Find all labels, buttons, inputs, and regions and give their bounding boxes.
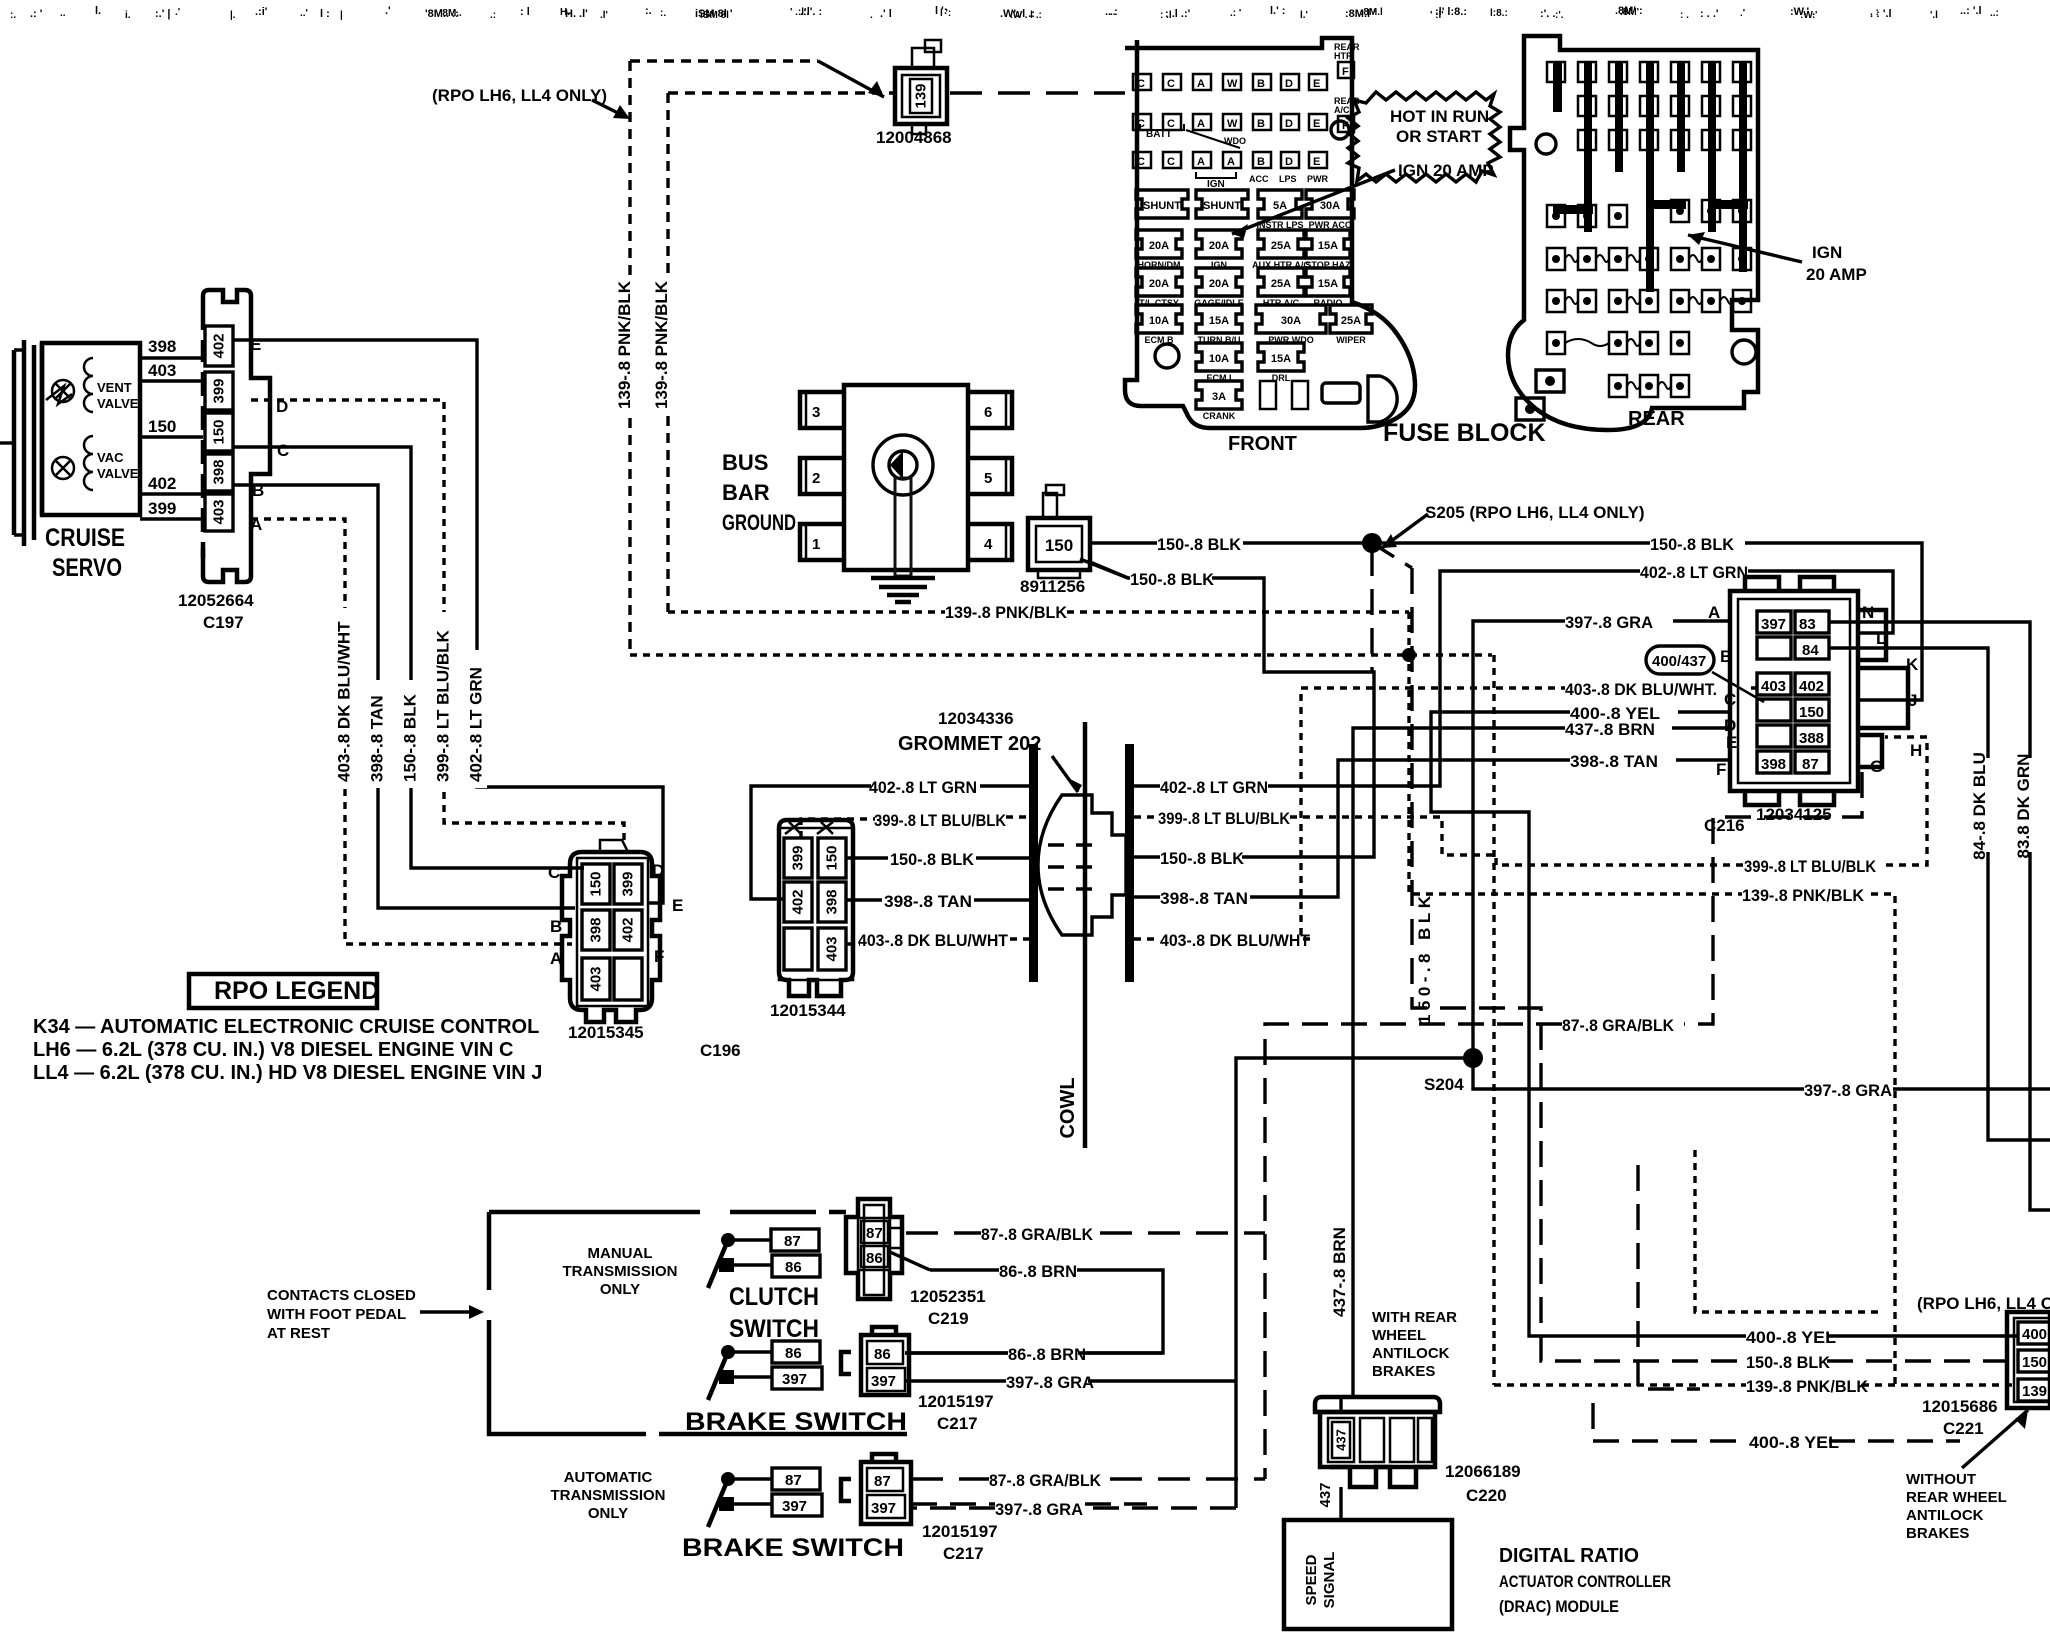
svg-text:WIPER: WIPER bbox=[1336, 335, 1366, 345]
svg-text:388: 388 bbox=[1799, 730, 1824, 747]
svg-text:397: 397 bbox=[782, 1498, 807, 1515]
svg-text:12052664: 12052664 bbox=[178, 591, 254, 610]
svg-text:150-.8 BLK: 150-.8 BLK bbox=[1130, 570, 1215, 589]
svg-text:.': .' bbox=[1740, 8, 1745, 19]
svg-text:12034336: 12034336 bbox=[938, 709, 1014, 728]
svg-text:G: G bbox=[1870, 757, 1883, 776]
svg-text:.': .' bbox=[175, 7, 180, 18]
svg-text::'. .: :'. . bbox=[1540, 8, 1555, 20]
svg-text:LH6 — 6.2L (378 CU. IN.) V8 DI: LH6 — 6.2L (378 CU. IN.) V8 DIESEL ENGIN… bbox=[33, 1039, 514, 1061]
svg-text:A: A bbox=[1197, 118, 1205, 130]
svg-text::8M.l ': :8M.l ' bbox=[1345, 8, 1376, 20]
svg-text:: .l .:': : .l .:' bbox=[1165, 8, 1191, 20]
svg-text:VAC: VAC bbox=[97, 450, 124, 465]
svg-text:..': ..' bbox=[300, 8, 308, 19]
svg-text:ACC: ACC bbox=[1249, 174, 1269, 184]
svg-text:REAR WHEEL: REAR WHEEL bbox=[1906, 1489, 2007, 1506]
svg-text:398: 398 bbox=[1761, 756, 1786, 773]
svg-text:CONTACTS CLOSED: CONTACTS CLOSED bbox=[267, 1287, 416, 1304]
svg-text:400-.8 YEL: 400-.8 YEL bbox=[1746, 1328, 1836, 1347]
svg-text:3: 3 bbox=[812, 404, 820, 421]
svg-text::.: :. bbox=[645, 5, 652, 17]
svg-text:ONLY: ONLY bbox=[600, 1281, 640, 1298]
svg-text:20A: 20A bbox=[1209, 278, 1229, 290]
svg-text:E: E bbox=[250, 335, 261, 354]
svg-text:MANUAL: MANUAL bbox=[588, 1245, 653, 1262]
svg-text:ECM B: ECM B bbox=[1145, 335, 1175, 345]
svg-text:|: | bbox=[340, 10, 343, 21]
svg-text:l:8.:: l:8.: bbox=[1490, 8, 1508, 19]
svg-text:139: 139 bbox=[913, 83, 930, 108]
svg-text:.: ': .: ' bbox=[30, 8, 43, 20]
svg-text:87: 87 bbox=[874, 1473, 891, 1490]
svg-text:B: B bbox=[550, 917, 562, 936]
svg-text:403: 403 bbox=[588, 966, 605, 991]
svg-text:CRUISE: CRUISE bbox=[45, 524, 125, 552]
svg-text:l.' :: l.' : bbox=[1270, 5, 1285, 17]
svg-text:139: 139 bbox=[2022, 1383, 2047, 1400]
svg-text:398: 398 bbox=[588, 917, 605, 942]
svg-text:2: 2 bbox=[812, 470, 820, 487]
svg-text:402: 402 bbox=[620, 917, 637, 942]
svg-text:S204: S204 bbox=[1424, 1075, 1464, 1094]
svg-text:H: H bbox=[1910, 741, 1922, 760]
svg-text:W: W bbox=[1227, 118, 1238, 130]
svg-text:15A: 15A bbox=[1318, 278, 1338, 290]
svg-text:COWL: COWL bbox=[1057, 1077, 1079, 1138]
svg-text:SHUNT: SHUNT bbox=[1203, 200, 1241, 212]
svg-text:10A: 10A bbox=[1149, 315, 1169, 327]
svg-text:C: C bbox=[1167, 78, 1175, 90]
svg-text:399-.8 LT BLU/BLK: 399-.8 LT BLU/BLK bbox=[1744, 857, 1877, 876]
svg-text:SPEED: SPEED bbox=[1303, 1554, 1320, 1605]
svg-text:400-.8 YEL: 400-.8 YEL bbox=[1749, 1433, 1839, 1452]
svg-text:D: D bbox=[1285, 156, 1293, 168]
svg-text:150: 150 bbox=[211, 419, 228, 444]
svg-text:(RPO LH6, LL4 ONLY): (RPO LH6, LL4 ONLY) bbox=[432, 86, 607, 105]
svg-text:12015197: 12015197 bbox=[922, 1522, 998, 1541]
svg-text:400/437: 400/437 bbox=[1652, 653, 1706, 670]
svg-text:397-.8 GRA: 397-.8 GRA bbox=[1006, 1373, 1094, 1392]
svg-text:C196: C196 bbox=[700, 1041, 741, 1060]
svg-text:139-.8 PNK/BLK: 139-.8 PNK/BLK bbox=[1746, 1377, 1869, 1396]
svg-text:.. :: .. : bbox=[1105, 6, 1118, 18]
svg-text:C: C bbox=[1167, 156, 1175, 168]
svg-text:VALVE: VALVE bbox=[97, 466, 139, 481]
svg-text:87: 87 bbox=[785, 1472, 802, 1489]
svg-text:LL4 — 6.2L (378 CU. IN.) HD V8: LL4 — 6.2L (378 CU. IN.) HD V8 DIESEL EN… bbox=[33, 1062, 542, 1084]
svg-text:'8M.. .:: '8M.. .: bbox=[425, 8, 459, 20]
svg-text:10A: 10A bbox=[1209, 353, 1229, 365]
svg-text:.:l'. :: .:l'. : bbox=[800, 6, 822, 18]
svg-text:l :: l : bbox=[320, 8, 330, 20]
svg-text:AT REST: AT REST bbox=[267, 1325, 330, 1342]
svg-text:.' l: .' l bbox=[880, 8, 892, 20]
svg-text:VALVE: VALVE bbox=[97, 396, 139, 411]
svg-text:WITH REAR: WITH REAR bbox=[1372, 1309, 1457, 1326]
svg-text:L: L bbox=[1876, 629, 1886, 648]
svg-text:87-.8 GRA/BLK: 87-.8 GRA/BLK bbox=[981, 1225, 1094, 1244]
svg-text:A: A bbox=[550, 949, 562, 968]
svg-text:LPS: LPS bbox=[1279, 174, 1297, 184]
svg-text:25A: 25A bbox=[1341, 315, 1361, 327]
svg-text:A: A bbox=[1227, 156, 1235, 168]
svg-text:H. .l': H. .l' bbox=[565, 8, 588, 20]
svg-text:150: 150 bbox=[1799, 704, 1824, 721]
svg-text:FUSE BLOCK: FUSE BLOCK bbox=[1383, 419, 1546, 447]
svg-text:139-.8 PNK/BLK: 139-.8 PNK/BLK bbox=[945, 603, 1068, 622]
svg-text::.: :. bbox=[660, 8, 666, 19]
svg-text:BUS: BUS bbox=[722, 450, 768, 475]
svg-text:S205 (RPO LH6, LL4 ONLY): S205 (RPO LH6, LL4 ONLY) bbox=[1425, 503, 1644, 522]
svg-text:1: 1 bbox=[812, 536, 820, 553]
svg-text:C: C bbox=[1724, 690, 1736, 709]
svg-text:BATT: BATT bbox=[1146, 129, 1172, 140]
svg-text:HOT IN RUN: HOT IN RUN bbox=[1390, 107, 1489, 126]
svg-text:C: C bbox=[277, 441, 289, 460]
svg-text:400: 400 bbox=[2022, 1326, 2047, 1343]
svg-text:A: A bbox=[1197, 156, 1205, 168]
svg-text:5: 5 bbox=[984, 470, 992, 487]
svg-text:87-.8 GRA/BLK: 87-.8 GRA/BLK bbox=[1562, 1016, 1675, 1035]
svg-text:B: B bbox=[1720, 647, 1732, 666]
svg-text:WDO: WDO bbox=[1224, 136, 1246, 146]
svg-text:30A: 30A bbox=[1281, 315, 1301, 327]
svg-text:VENT: VENT bbox=[97, 380, 132, 395]
svg-text:BRAKES: BRAKES bbox=[1372, 1363, 1435, 1380]
svg-text:399-.8 LT BLU/BLK: 399-.8 LT BLU/BLK bbox=[434, 630, 453, 782]
svg-text:437: 437 bbox=[1334, 1429, 1349, 1451]
svg-text:397: 397 bbox=[782, 1371, 807, 1388]
svg-text:402: 402 bbox=[148, 474, 176, 493]
svg-text:F: F bbox=[654, 947, 664, 966]
svg-text:15A: 15A bbox=[1318, 240, 1338, 252]
svg-text:CLUTCH: CLUTCH bbox=[729, 1283, 819, 1311]
svg-text:. : '.l: . : '.l bbox=[1870, 8, 1892, 20]
svg-text:: . .': : . .' bbox=[1700, 8, 1719, 20]
svg-text:403-.8 DK BLU/WHT: 403-.8 DK BLU/WHT bbox=[335, 621, 354, 782]
svg-text:RPO LEGEND: RPO LEGEND bbox=[214, 977, 379, 1005]
svg-text:BRAKE SWITCH: BRAKE SWITCH bbox=[685, 1408, 907, 1436]
svg-text:398-.8 TAN: 398-.8 TAN bbox=[1570, 752, 1658, 771]
svg-text:E: E bbox=[1313, 118, 1320, 130]
svg-text:397-.8 GRA: 397-.8 GRA bbox=[1804, 1081, 1892, 1100]
svg-text:20A: 20A bbox=[1209, 240, 1229, 252]
svg-text:E: E bbox=[672, 896, 683, 915]
svg-text:REAR: REAR bbox=[1628, 408, 1685, 430]
svg-text:C216: C216 bbox=[1704, 816, 1745, 835]
svg-text:20A: 20A bbox=[1149, 240, 1169, 252]
svg-text:139-.8 PNK/BLK: 139-.8 PNK/BLK bbox=[615, 280, 634, 409]
svg-text:398-.8 TAN: 398-.8 TAN bbox=[368, 695, 387, 782]
svg-text:ANTILOCK: ANTILOCK bbox=[1372, 1345, 1450, 1362]
svg-text:i.: i. bbox=[125, 10, 131, 21]
svg-text:12015345: 12015345 bbox=[568, 1023, 644, 1042]
svg-text:397-.8 GRA: 397-.8 GRA bbox=[1565, 613, 1653, 632]
svg-text:SIGNAL: SIGNAL bbox=[1321, 1552, 1338, 1609]
svg-text:.:: .: bbox=[490, 10, 496, 21]
svg-text:150: 150 bbox=[148, 417, 176, 436]
svg-text:150: 150 bbox=[1045, 536, 1073, 555]
svg-text:150-.8 BLK: 150-.8 BLK bbox=[401, 693, 420, 782]
svg-text:|.: |. bbox=[230, 10, 236, 21]
svg-text:D: D bbox=[652, 861, 664, 880]
svg-text:15A: 15A bbox=[1271, 353, 1291, 365]
svg-text:C219: C219 bbox=[928, 1309, 969, 1328]
svg-text:W: W bbox=[1227, 78, 1238, 90]
svg-text:: .: : . bbox=[1680, 10, 1689, 21]
svg-text:K: K bbox=[1906, 655, 1919, 674]
svg-text:150-.8 BLK: 150-.8 BLK bbox=[1157, 535, 1242, 554]
svg-text:.: . bbox=[870, 10, 873, 21]
svg-text:84-.8 DK BLU: 84-.8 DK BLU bbox=[1970, 752, 1989, 860]
svg-text:399-.8 LT BLU/BLK: 399-.8 LT BLU/BLK bbox=[1158, 809, 1291, 828]
svg-text:402: 402 bbox=[211, 333, 228, 358]
svg-text:C217: C217 bbox=[943, 1544, 984, 1563]
svg-text:150: 150 bbox=[2022, 1354, 2047, 1371]
svg-text:: l: : l bbox=[520, 6, 530, 18]
svg-text:SWITCH: SWITCH bbox=[729, 1315, 819, 1343]
svg-text:F: F bbox=[1716, 760, 1726, 779]
svg-text:l.: l. bbox=[95, 5, 101, 17]
svg-text:ANTILOCK: ANTILOCK bbox=[1906, 1507, 1984, 1524]
svg-text:..: '.l: ..: '.l bbox=[1960, 5, 1982, 17]
svg-text:397-.8 GRA: 397-.8 GRA bbox=[995, 1500, 1083, 1519]
svg-text:IGN 20 AMP: IGN 20 AMP bbox=[1398, 161, 1494, 180]
svg-text::.: :. bbox=[10, 10, 16, 21]
svg-text::.' |: :.' | bbox=[155, 8, 170, 20]
svg-text:.: ': .: ' bbox=[1230, 8, 1241, 19]
svg-text:BRAKES: BRAKES bbox=[1906, 1525, 1969, 1542]
svg-text:6: 6 bbox=[984, 404, 992, 421]
svg-text:BRAKE SWITCH: BRAKE SWITCH bbox=[682, 1534, 904, 1562]
svg-text:A: A bbox=[1197, 78, 1205, 90]
svg-text:398: 398 bbox=[211, 459, 228, 484]
svg-text:402-.8 LT GRN: 402-.8 LT GRN bbox=[1160, 778, 1268, 797]
svg-text:C: C bbox=[1137, 156, 1145, 168]
svg-text:150-.8 BLK: 150-.8 BLK bbox=[1746, 1353, 1831, 1372]
svg-text:402-.8 LT GRN: 402-.8 LT GRN bbox=[467, 667, 486, 782]
svg-text:397: 397 bbox=[871, 1500, 896, 1517]
svg-text:GROUND: GROUND bbox=[722, 510, 796, 535]
svg-text:403-.8 DK BLU/WHT: 403-.8 DK BLU/WHT bbox=[858, 931, 1009, 950]
svg-text:437-.8 BRN: 437-.8 BRN bbox=[1565, 720, 1655, 739]
svg-text:SHUNT: SHUNT bbox=[1143, 200, 1181, 212]
svg-text:ACTUATOR CONTROLLER: ACTUATOR CONTROLLER bbox=[1499, 1572, 1671, 1591]
svg-text:403: 403 bbox=[148, 361, 176, 380]
svg-text:402-.8 LT GRN: 402-.8 LT GRN bbox=[869, 778, 977, 797]
svg-text:403: 403 bbox=[211, 499, 228, 524]
svg-text:437: 437 bbox=[1317, 1482, 1334, 1507]
svg-text:C221: C221 bbox=[1943, 1419, 1984, 1438]
svg-text:.8M' :: .8M' : bbox=[1615, 5, 1643, 17]
svg-text:C: C bbox=[1137, 78, 1145, 90]
svg-text:.:i': .:i' bbox=[255, 6, 268, 18]
svg-text:139-.8 PNK/BLK: 139-.8 PNK/BLK bbox=[652, 280, 671, 409]
svg-text:30A: 30A bbox=[1320, 200, 1340, 212]
svg-text:DIGITAL RATIO: DIGITAL RATIO bbox=[1499, 1545, 1639, 1567]
svg-text:SERVO: SERVO bbox=[52, 554, 122, 582]
svg-text:87: 87 bbox=[784, 1233, 801, 1250]
svg-text:15A: 15A bbox=[1209, 315, 1229, 327]
svg-text:3A: 3A bbox=[1212, 391, 1226, 403]
svg-text:402: 402 bbox=[1799, 678, 1824, 695]
svg-text:iSM 8l ': iSM 8l ' bbox=[695, 8, 733, 20]
svg-text:150-.8 BLK: 150-.8 BLK bbox=[1160, 849, 1245, 868]
svg-text:OR START: OR START bbox=[1396, 127, 1482, 146]
svg-text:A/C: A/C bbox=[1334, 105, 1350, 115]
svg-text:..: .. bbox=[60, 8, 66, 19]
svg-text:E: E bbox=[1726, 733, 1737, 752]
svg-text:399: 399 bbox=[790, 845, 807, 870]
svg-text:ONLY: ONLY bbox=[588, 1505, 628, 1522]
svg-text:403-.8 DK BLU/WHT.: 403-.8 DK BLU/WHT. bbox=[1565, 680, 1717, 699]
svg-text:.W'. l .:: .W'. l .: bbox=[1000, 8, 1035, 20]
svg-text:AUTOMATIC: AUTOMATIC bbox=[564, 1469, 653, 1486]
svg-text:20 AMP: 20 AMP bbox=[1806, 265, 1867, 284]
svg-text:402-.8 LT GRN: 402-.8 LT GRN bbox=[1640, 563, 1748, 582]
svg-text:20A: 20A bbox=[1149, 278, 1169, 290]
svg-text:12052351: 12052351 bbox=[910, 1287, 986, 1306]
svg-text:C: C bbox=[548, 863, 560, 882]
svg-text:WHEEL: WHEEL bbox=[1372, 1327, 1426, 1344]
svg-text:l ':: l ': bbox=[935, 5, 947, 17]
svg-text:402: 402 bbox=[790, 889, 807, 914]
svg-text:..:: ..: bbox=[1990, 8, 1999, 19]
svg-text:C220: C220 bbox=[1466, 1486, 1507, 1505]
svg-text:4: 4 bbox=[984, 536, 993, 553]
svg-text:12015197: 12015197 bbox=[918, 1392, 994, 1411]
svg-text:IGN: IGN bbox=[1812, 243, 1842, 262]
svg-text:150-.8 BLK: 150-.8 BLK bbox=[890, 850, 975, 869]
svg-text:.l': .l' bbox=[600, 10, 608, 21]
svg-text:12015344: 12015344 bbox=[770, 1001, 846, 1020]
svg-text:398: 398 bbox=[148, 337, 176, 356]
svg-text:150-.8 BLK: 150-.8 BLK bbox=[1415, 895, 1434, 1024]
svg-text:398-.8 TAN: 398-.8 TAN bbox=[1160, 889, 1248, 908]
svg-text:86: 86 bbox=[785, 1345, 802, 1362]
svg-text:N: N bbox=[1862, 603, 1874, 622]
svg-text:87: 87 bbox=[866, 1225, 883, 1242]
svg-text:WITH FOOT PEDAL: WITH FOOT PEDAL bbox=[267, 1306, 406, 1323]
svg-text:TRANSMISSION: TRANSMISSION bbox=[550, 1487, 665, 1504]
svg-text:J: J bbox=[1908, 691, 1917, 710]
svg-text:25A: 25A bbox=[1271, 278, 1291, 290]
svg-text:150-.8 BLK: 150-.8 BLK bbox=[1650, 535, 1735, 554]
svg-text:139-.8 PNK/BLK: 139-.8 PNK/BLK bbox=[1742, 886, 1865, 905]
svg-text:BAR: BAR bbox=[722, 480, 770, 505]
svg-text:WITHOUT: WITHOUT bbox=[1906, 1471, 1976, 1488]
svg-text:F: F bbox=[1342, 120, 1349, 132]
svg-text:(DRAC) MODULE: (DRAC) MODULE bbox=[1499, 1597, 1619, 1616]
svg-text:437-.8 BRN: 437-.8 BRN bbox=[1330, 1227, 1349, 1317]
svg-text:12034125: 12034125 bbox=[1756, 805, 1832, 824]
svg-text::l' l:8.:: :l' l:8.: bbox=[1435, 6, 1467, 18]
svg-text:86: 86 bbox=[874, 1346, 891, 1363]
svg-text:'.l: '.l bbox=[1930, 10, 1938, 21]
svg-text:D: D bbox=[1285, 78, 1293, 90]
svg-text:GROMMET 202: GROMMET 202 bbox=[898, 733, 1041, 755]
svg-text:86-.8 BRN: 86-.8 BRN bbox=[1008, 1345, 1086, 1364]
svg-text:86: 86 bbox=[785, 1259, 802, 1276]
svg-text:C217: C217 bbox=[937, 1414, 978, 1433]
svg-text:.': .' bbox=[385, 5, 391, 17]
svg-text:25A: 25A bbox=[1271, 240, 1291, 252]
svg-text:PWR: PWR bbox=[1307, 174, 1328, 184]
svg-text:E: E bbox=[1313, 156, 1320, 168]
svg-text:K34 — AUTOMATIC ELECTRONIC CRU: K34 — AUTOMATIC ELECTRONIC CRUISE CONTRO… bbox=[33, 1016, 539, 1038]
svg-text:150: 150 bbox=[824, 845, 841, 870]
svg-text:12066189: 12066189 bbox=[1445, 1462, 1521, 1481]
svg-text:399: 399 bbox=[148, 499, 176, 518]
svg-text:F: F bbox=[1342, 66, 1349, 78]
svg-text:86: 86 bbox=[866, 1250, 883, 1267]
svg-text:398-.8 TAN: 398-.8 TAN bbox=[884, 892, 972, 911]
svg-text:B: B bbox=[1257, 118, 1265, 130]
svg-text:TRANSMISSION: TRANSMISSION bbox=[562, 1263, 677, 1280]
svg-text:12004868: 12004868 bbox=[876, 128, 952, 147]
svg-text:83: 83 bbox=[1799, 616, 1816, 633]
svg-text:87-.8 GRA/BLK: 87-.8 GRA/BLK bbox=[989, 1471, 1102, 1490]
svg-text:399-.8 LT BLU/BLK: 399-.8 LT BLU/BLK bbox=[874, 811, 1007, 830]
svg-text:FRONT: FRONT bbox=[1228, 433, 1297, 455]
svg-text:D: D bbox=[1285, 118, 1293, 130]
svg-text:403: 403 bbox=[1761, 678, 1786, 695]
svg-text:399: 399 bbox=[211, 378, 228, 403]
svg-text:399: 399 bbox=[620, 871, 637, 896]
svg-text:150: 150 bbox=[588, 871, 605, 896]
svg-text:87: 87 bbox=[1802, 756, 1819, 773]
svg-text:398: 398 bbox=[824, 889, 841, 914]
svg-text:86-.8 BRN: 86-.8 BRN bbox=[999, 1262, 1077, 1281]
svg-text:l.': l.' bbox=[1300, 10, 1308, 21]
svg-text:A: A bbox=[1708, 603, 1720, 622]
svg-text::W.' .: :W.' . bbox=[1790, 6, 1815, 18]
svg-text:C197: C197 bbox=[203, 613, 244, 632]
svg-text::'.: :'. bbox=[1555, 10, 1564, 21]
svg-text:8911256: 8911256 bbox=[1020, 577, 1085, 596]
svg-text:83.8 DK GRN: 83.8 DK GRN bbox=[2014, 754, 2033, 859]
svg-text:B: B bbox=[1257, 78, 1265, 90]
svg-text:HTR: HTR bbox=[1334, 51, 1353, 61]
svg-text:403: 403 bbox=[824, 936, 841, 961]
svg-text:CRANK: CRANK bbox=[1203, 411, 1236, 421]
svg-text:E: E bbox=[1313, 78, 1320, 90]
svg-text:403-.8 DK BLU/WHT: 403-.8 DK BLU/WHT bbox=[1160, 931, 1311, 950]
svg-text:397: 397 bbox=[871, 1373, 896, 1390]
svg-text:5A: 5A bbox=[1273, 200, 1287, 212]
svg-text:84: 84 bbox=[1802, 642, 1819, 659]
svg-text:12015686: 12015686 bbox=[1922, 1397, 1998, 1416]
svg-text:B: B bbox=[1257, 156, 1265, 168]
svg-text:397: 397 bbox=[1761, 616, 1786, 633]
